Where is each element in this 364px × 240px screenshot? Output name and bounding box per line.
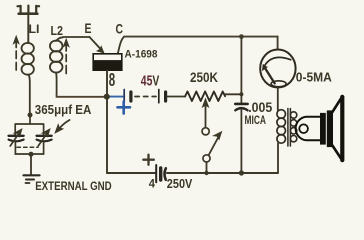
- wire meter to transformer: [277, 88, 279, 110]
- variable capacitor C2: [37, 135, 52, 137]
- speaker: [296, 97, 343, 160]
- coil L1: [22, 43, 34, 115]
- svg-text:4: 4: [149, 177, 155, 191]
- adjustable core arrow L2: [64, 39, 69, 73]
- node top rail / cap: [239, 34, 244, 39]
- potentiometer R1 250K zigzag: [185, 92, 225, 102]
- transformer T1 secondary: [290, 112, 296, 142]
- svg-text:250V: 250V: [167, 176, 193, 191]
- svg-text:365μμf EA: 365μμf EA: [35, 102, 92, 117]
- wire antenna to L1: [27, 14, 29, 43]
- plus sign (blue): [118, 102, 131, 114]
- emitter lead with arrow: [90, 37, 102, 50]
- wire top rail: [124, 36, 278, 38]
- battery B2 250V: [155, 165, 157, 182]
- wiper arrow: [205, 104, 207, 128]
- ground: [24, 174, 40, 176]
- EA arrow to C2: [59, 120, 70, 130]
- wire tuning frame bottom: [15, 153, 43, 155]
- node frame bottom: [29, 152, 34, 157]
- plus sign B2: [143, 155, 154, 165]
- battery B1 45V: [124, 90, 185, 103]
- wire junction to battery (blue tinged): [107, 96, 123, 98]
- variable capacitor C1: [9, 135, 24, 137]
- wire pot to cap line: [225, 93, 242, 95]
- svg-text:A-1698: A-1698: [125, 49, 158, 61]
- transformer T1 primary: [277, 110, 286, 144]
- node L1/tuning junction: [28, 113, 33, 118]
- wire bottom rail left: [107, 172, 155, 174]
- wire to ground: [30, 154, 32, 175]
- arrow C2: [38, 133, 47, 147]
- wire transformer to bottom rail: [277, 143, 279, 173]
- node pot/cap junction: [239, 92, 243, 96]
- svg-text:C: C: [116, 22, 124, 37]
- svg-text:EXTERNAL GND: EXTERNAL GND: [35, 179, 112, 193]
- svg-text:45V: 45V: [141, 72, 160, 89]
- collector lead: [118, 37, 124, 54]
- arrow C1: [10, 133, 19, 147]
- node base junction (over wire): [104, 94, 110, 100]
- node switch/rail: [204, 171, 208, 175]
- wire bottom rail right: [167, 172, 278, 174]
- svg-text:E: E: [85, 21, 92, 36]
- switch S1: [202, 128, 209, 135]
- capacitor C3 .005: [240, 37, 242, 103]
- svg-text:MICA: MICA: [245, 113, 267, 127]
- svg-text:LI: LI: [29, 24, 40, 36]
- wire tuning frame top: [15, 115, 43, 135]
- wire base line down: [106, 71, 108, 174]
- adjustable core arrow L1: [14, 36, 19, 70]
- svg-text:L2: L2: [51, 24, 64, 38]
- gang dashed link: [17, 146, 38, 148]
- svg-text:0-5MA: 0-5MA: [296, 69, 333, 84]
- wire L2 top to emitter: [63, 36, 90, 38]
- transformer core: [288, 109, 291, 147]
- transistor U1 block: [93, 54, 122, 70]
- svg-text:250K: 250K: [190, 70, 218, 85]
- svg-text:8: 8: [109, 70, 115, 90]
- wire L2 bottom to base junction: [57, 96, 107, 97]
- node cap/rail: [239, 170, 244, 175]
- wire rail to meter: [277, 37, 279, 50]
- coil L2: [50, 37, 63, 95]
- antenna: [18, 6, 40, 14]
- node base junction: [104, 94, 110, 100]
- meter M1: [260, 50, 295, 88]
